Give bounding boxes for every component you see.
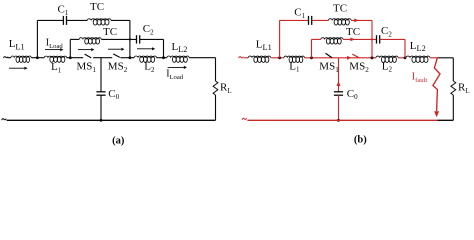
inductor L_2 [134, 56, 156, 58]
wire right vertical top b [452, 58, 454, 81]
svg-text:(b): (b) [354, 135, 367, 146]
svg-text:MS1: MS1 [77, 61, 97, 74]
top branch wire [37, 19, 63, 21]
inductor L_2 b [376, 56, 398, 58]
current arrow I_Load left [45, 49, 60, 51]
node 2b [310, 56, 313, 59]
svg-text:Ifault: Ifault [412, 72, 428, 84]
wire [120, 57, 134, 59]
current arrowhead mid [350, 38, 355, 42]
svg-text:TC: TC [90, 1, 104, 13]
switch MS_1 [85, 54, 92, 58]
wire red [312, 19, 329, 21]
switch MS_2 b [352, 54, 359, 58]
wire right vertical bottom [215, 95, 217, 120]
second branch wire [70, 38, 79, 40]
svg-text:LL1: LL1 [256, 39, 272, 52]
wire right vertical bottom b [452, 95, 454, 120]
fault bolt [433, 58, 440, 111]
wire v1 [36, 20, 38, 57]
current arrow L_2 [137, 48, 152, 50]
wire black [438, 57, 454, 59]
wire [93, 57, 112, 59]
capacitor C_1 b [308, 16, 310, 25]
wire [157, 57, 167, 59]
wire v2 [69, 39, 71, 57]
svg-text:(a): (a) [112, 135, 125, 146]
capacitor C_2 [136, 35, 138, 43]
svg-text:C2: C2 [381, 25, 392, 38]
wire C_0 upper red [338, 58, 340, 92]
node 3c [371, 56, 374, 59]
current arrowhead C_0 up [337, 81, 341, 86]
wire red [430, 57, 438, 59]
wire [8, 57, 11, 59]
bottom wire black [438, 119, 454, 121]
current arrowhead top [354, 19, 359, 23]
current arrow I1 [9, 67, 24, 69]
svg-text:MS1: MS1 [319, 61, 339, 74]
svg-text:C0: C0 [347, 88, 358, 101]
capacitor C_1 [62, 16, 64, 25]
second branch wire red [312, 38, 321, 40]
inductor L_1 b [284, 56, 305, 58]
capacitor C_0 b [334, 91, 343, 93]
wire red [343, 38, 376, 40]
resistor R_L [213, 81, 218, 95]
svg-text:TC: TC [346, 26, 360, 38]
inductor L_L1 [11, 56, 31, 58]
svg-text:LL2: LL2 [172, 41, 188, 54]
svg-text:LL1: LL1 [9, 38, 25, 51]
switch MS_2 [113, 54, 120, 58]
svg-text:TC: TC [333, 3, 347, 15]
capacitor C_2 b [376, 35, 378, 43]
node C_0 bottom [100, 119, 103, 122]
wire v2 red [311, 39, 313, 57]
wire right vertical top [215, 58, 217, 81]
wire v4 [163, 39, 165, 57]
wire C_0 upper [100, 58, 102, 92]
svg-text:RL: RL [458, 82, 470, 95]
node 1b [278, 56, 281, 59]
figure a: source tilde [3, 57, 8, 59]
inductor L_L2 [167, 56, 189, 58]
figure b: source tilde [239, 57, 244, 59]
bottom tilde b [242, 118, 247, 120]
node 2 [69, 56, 72, 59]
current arrow MS_2 [108, 48, 121, 50]
wire C_0 lower red [338, 95, 340, 120]
node 4 [162, 56, 165, 59]
resistor R_L b [451, 81, 456, 95]
inductor L_L1 b [248, 56, 271, 58]
bottom wire [7, 119, 216, 121]
wire red [380, 38, 405, 40]
wire v3 red [371, 20, 373, 57]
wire v3 [129, 20, 131, 57]
inductor TC top b [328, 19, 351, 21]
svg-text:ILoad: ILoad [166, 69, 184, 81]
wire red [271, 57, 284, 59]
node C_0 bottom b [337, 119, 340, 122]
wire [189, 57, 215, 59]
wire red main [305, 57, 376, 59]
node 3 [129, 56, 132, 59]
inductor L_1 [44, 56, 66, 58]
svg-text:TC: TC [103, 26, 117, 38]
wire C_0 lower [100, 95, 102, 120]
node 3b [129, 38, 131, 40]
svg-text:C1: C1 [294, 7, 305, 20]
svg-text:C2: C2 [143, 23, 154, 36]
svg-text:C0: C0 [108, 88, 119, 101]
svg-text:ILoad: ILoad [46, 37, 64, 49]
svg-text:LL2: LL2 [410, 40, 426, 53]
wire [31, 57, 44, 59]
svg-text:L1: L1 [51, 61, 62, 74]
wire red [398, 57, 406, 59]
current arrow MS_1 [78, 49, 91, 51]
wire v4 red [404, 39, 406, 57]
wire red [244, 57, 249, 59]
svg-text:MS2: MS2 [108, 61, 128, 74]
top branch wire red [280, 19, 309, 21]
wire [67, 19, 88, 21]
node 3d [371, 38, 373, 40]
switch MS_1 b [326, 53, 333, 58]
capacitor C_0 [96, 91, 105, 93]
wire [111, 19, 130, 21]
current arrowhead main [347, 56, 352, 60]
current arrow I_Load right [168, 66, 184, 68]
inductor TC top [87, 19, 111, 21]
wire [67, 57, 84, 59]
node 4b [404, 56, 407, 59]
inductor TC mid [79, 38, 101, 40]
node 1 [36, 56, 39, 59]
inductor TC mid b [321, 38, 343, 40]
wire red [351, 19, 372, 21]
bottom tilde [2, 119, 7, 121]
svg-text:MS2: MS2 [349, 61, 369, 74]
fault arrowhead down [434, 111, 439, 117]
svg-text:C1: C1 [58, 4, 69, 17]
wire v1 red [279, 20, 281, 57]
bottom wire red [247, 119, 437, 121]
svg-text:RL: RL [220, 82, 232, 95]
wire [101, 38, 136, 40]
inductor L_L2 b [406, 56, 430, 58]
wire [140, 38, 164, 40]
